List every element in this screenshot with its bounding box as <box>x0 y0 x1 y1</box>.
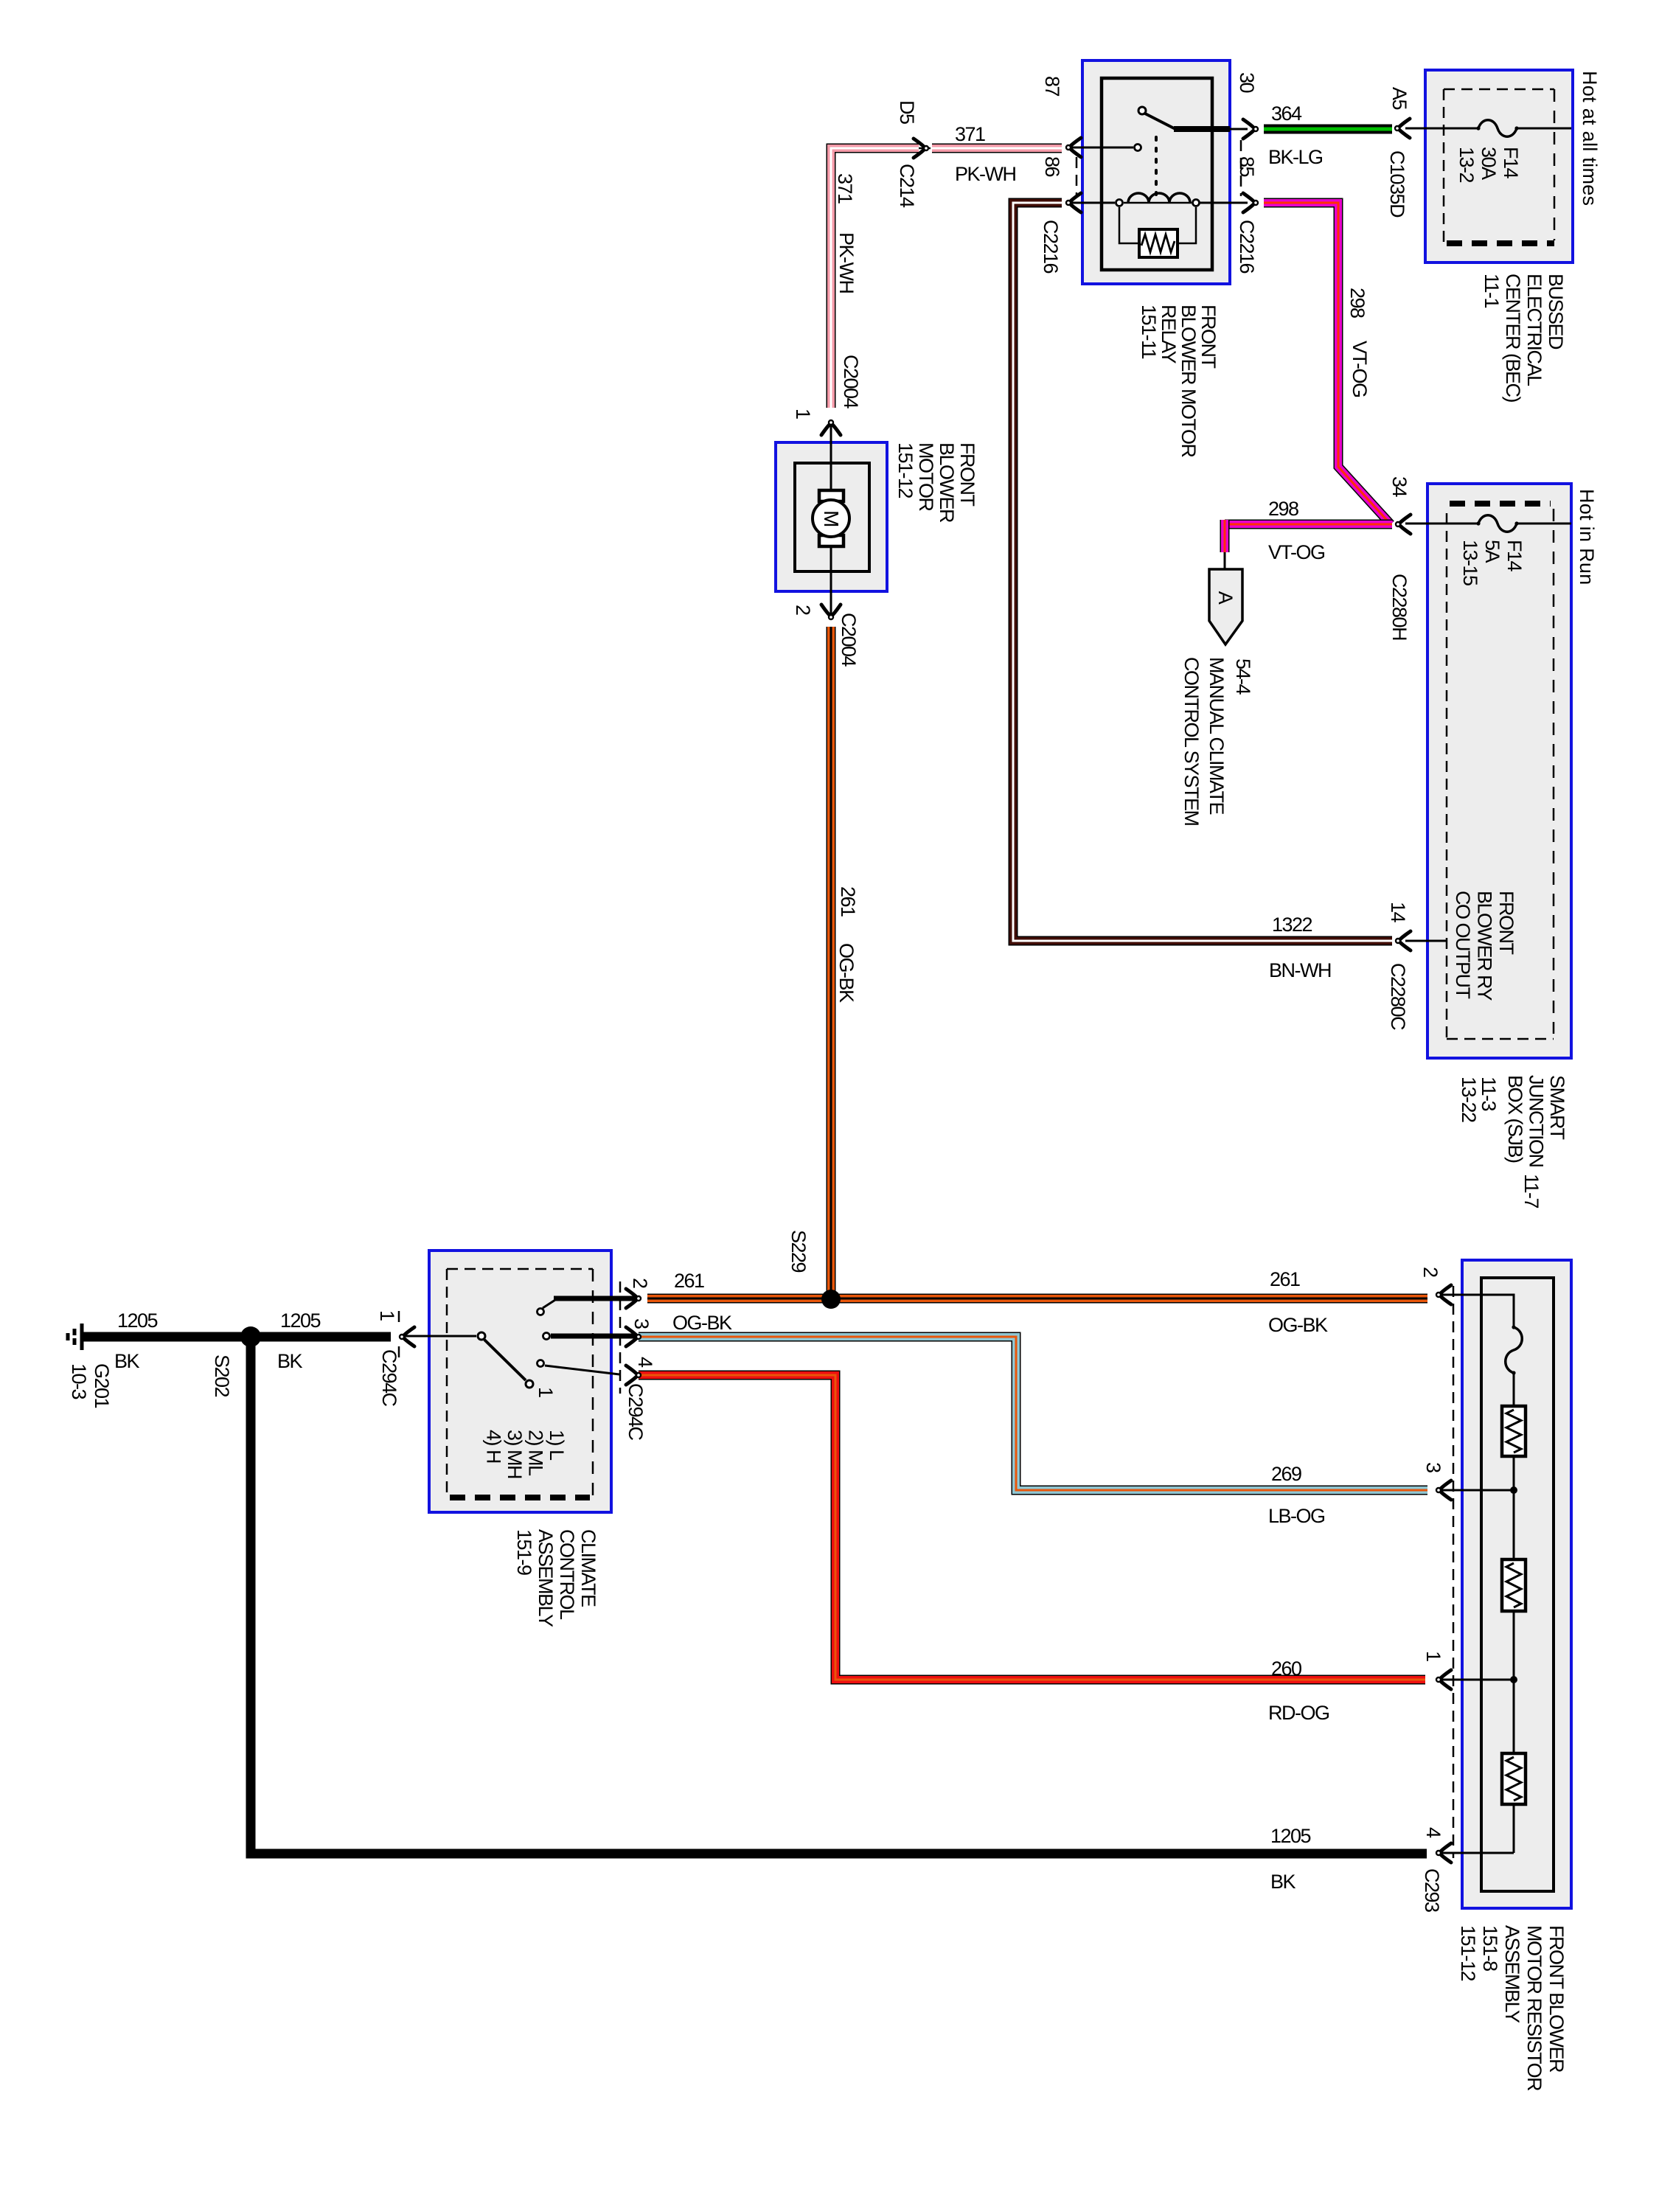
svg-text:CONTROL SYSTEM: CONTROL SYSTEM <box>1180 657 1203 826</box>
svg-text:A: A <box>1214 591 1237 605</box>
svg-text:OG-BK: OG-BK <box>672 1312 732 1334</box>
svg-text:FRONT: FRONT <box>956 442 978 506</box>
climate switch arm <box>484 1340 526 1380</box>
svg-text:JUNCTION: JUNCTION <box>1526 1075 1548 1167</box>
resistor element R1 <box>1502 1406 1526 1456</box>
svg-text:1: 1 <box>376 1310 398 1321</box>
svg-text:2: 2 <box>629 1278 651 1288</box>
wire 1322 BN-WH from relay pin 86 to SJB pin 14 <box>1013 203 1392 941</box>
motor pin 1 lead <box>830 425 832 491</box>
SJB connector arrow pin 34 C2280H <box>1396 515 1411 534</box>
svg-text:1: 1 <box>792 408 814 419</box>
SJB inner dashed outline <box>1450 501 1551 507</box>
svg-text:SMART: SMART <box>1546 1075 1568 1140</box>
svg-text:FRONT: FRONT <box>1197 305 1220 368</box>
motor connector arrow pin 2 C2004 <box>821 605 841 619</box>
relay switch pivot <box>1138 107 1146 114</box>
climate contact 4 (H) to pin 2 <box>538 1309 544 1315</box>
svg-text:54-4: 54-4 <box>1232 658 1254 695</box>
svg-text:30: 30 <box>1236 72 1258 93</box>
svg-text:BK: BK <box>1270 1871 1296 1893</box>
svg-text:F14: F14 <box>1503 540 1526 572</box>
climate connector arrows C294C <box>400 1327 414 1346</box>
svg-text:D5: D5 <box>896 100 918 124</box>
svg-text:151-8: 151-8 <box>1479 1925 1501 1971</box>
wire 260 RD-OG from climate control pin 4 to resistor pin 1 <box>639 1375 1425 1680</box>
svg-text:1205: 1205 <box>280 1310 321 1332</box>
svg-text:FRONT BLOWER: FRONT BLOWER <box>1545 1925 1568 2073</box>
svg-text:A5: A5 <box>1388 87 1411 110</box>
front blower motor box <box>776 442 887 591</box>
svg-text:LB-OG: LB-OG <box>1268 1505 1325 1527</box>
svg-text:2) ML: 2) ML <box>525 1430 547 1476</box>
front blower motor resistor assembly box <box>1462 1260 1571 1908</box>
relay connector dashed lines C2216 <box>1076 157 1078 196</box>
svg-text:2: 2 <box>792 605 814 615</box>
inline connector D5 C214 male pin lead <box>919 147 931 150</box>
climate connector dashed line left <box>398 1311 400 1329</box>
svg-text:298: 298 <box>1268 498 1298 520</box>
svg-text:2: 2 <box>1419 1267 1441 1277</box>
svg-text:3) MH: 3) MH <box>504 1430 526 1478</box>
svg-text:ASSEMBLY: ASSEMBLY <box>535 1529 557 1627</box>
resistor connector arrows <box>1436 1285 1451 1304</box>
BEC fuse F14 30A feed line <box>1405 128 1478 130</box>
relay connector arrows <box>1066 138 1081 157</box>
resistor thermal limiter <box>1506 1327 1523 1373</box>
relay switch arm <box>1145 114 1178 131</box>
svg-text:1322: 1322 <box>1272 914 1312 936</box>
svg-text:S229: S229 <box>787 1230 810 1273</box>
svg-text:13-22: 13-22 <box>1458 1077 1480 1122</box>
inline connector arrow D5 C214 <box>914 139 928 158</box>
svg-text:C2216: C2216 <box>1040 220 1062 274</box>
svg-text:BK: BK <box>277 1350 303 1372</box>
svg-text:1205: 1205 <box>1270 1825 1311 1847</box>
resistor pin 4 lead <box>1441 1852 1514 1854</box>
svg-text:CLIMATE: CLIMATE <box>577 1529 599 1607</box>
wire 1205 BK from S202 to climate control pin 1 <box>260 1332 391 1342</box>
svg-text:11-1: 11-1 <box>1481 274 1503 308</box>
svg-text:F14: F14 <box>1500 147 1522 179</box>
svg-text:ASSEMBLY: ASSEMBLY <box>1501 1925 1523 2023</box>
wire 261 OG-BK from motor pin 2 down to splice S229 <box>827 627 836 1299</box>
wire 269 LB-OG from climate control pin 3 to resistor pin 3 <box>639 1337 1427 1490</box>
wire 371 PK-WH left segment (corner down to motor) <box>831 148 919 408</box>
SJB connector arrow pin 14 C2280C <box>1396 931 1411 950</box>
svg-text:151-12: 151-12 <box>894 442 917 498</box>
svg-text:13-15: 13-15 <box>1459 540 1481 585</box>
svg-text:85: 85 <box>1236 156 1258 177</box>
resistor pin 2 lead <box>1441 1295 1514 1327</box>
resistor pin 3 lead <box>1441 1489 1514 1492</box>
relay pin 30 contact line <box>1174 126 1230 132</box>
motor connector arrow pin 1 C2004 <box>821 420 841 435</box>
svg-text:C2280H: C2280H <box>1388 574 1411 640</box>
wire 1205 BK ground segment from G201 to S202 <box>83 1332 242 1342</box>
svg-text:364: 364 <box>1271 102 1302 125</box>
svg-text:11-3: 11-3 <box>1478 1077 1500 1111</box>
svg-text:CONTROL: CONTROL <box>556 1529 578 1620</box>
wire 298 VT-OG branch to manual climate control <box>1225 520 1392 529</box>
svg-text:RELAY: RELAY <box>1158 305 1180 364</box>
svg-text:CO OUTPUT: CO OUTPUT <box>1452 891 1474 999</box>
svg-text:VT-OG: VT-OG <box>1268 541 1325 563</box>
resistor assembly connector dashed line C293 <box>1453 1286 1455 1858</box>
svg-text:BK: BK <box>114 1350 140 1372</box>
BEC connector arrow A5 <box>1395 119 1410 138</box>
lead from 298 stub to circuit reference A <box>1224 552 1226 570</box>
svg-text:3: 3 <box>1422 1462 1444 1472</box>
svg-text:10-3: 10-3 <box>68 1363 90 1399</box>
SJB fuse F14 5A feed line <box>1405 523 1478 525</box>
svg-text:1: 1 <box>535 1387 557 1397</box>
svg-text:1) L: 1) L <box>546 1430 568 1461</box>
svg-text:1205: 1205 <box>117 1310 158 1332</box>
svg-text:C2216: C2216 <box>1236 220 1258 274</box>
svg-text:OG-BK: OG-BK <box>1268 1314 1328 1336</box>
circuit reference A to manual climate control <box>1209 569 1242 644</box>
svg-text:371: 371 <box>834 173 856 204</box>
svg-text:5A: 5A <box>1481 540 1503 563</box>
climate switch pivot contact <box>403 1335 476 1338</box>
motor pin 2 lead <box>830 546 832 616</box>
climate control assembly box <box>429 1251 611 1512</box>
svg-text:C294C: C294C <box>378 1349 400 1407</box>
svg-text:BLOWER MOTOR: BLOWER MOTOR <box>1178 305 1200 458</box>
svg-text:14: 14 <box>1387 902 1409 923</box>
svg-text:C1035D: C1035D <box>1386 150 1408 218</box>
relay actuator dotted line <box>1155 137 1158 195</box>
svg-text:VT-OG: VT-OG <box>1349 341 1371 397</box>
svg-text:PK-WH: PK-WH <box>835 232 858 293</box>
svg-text:G201: G201 <box>91 1363 113 1408</box>
climate control inner dashed outline <box>447 1268 593 1270</box>
climate contact 2 (ML) to pin 4 <box>538 1360 544 1367</box>
smart junction box (SJB) <box>1427 484 1571 1058</box>
svg-text:86: 86 <box>1041 156 1063 177</box>
motor inner rectangle <box>795 463 869 571</box>
wire 298 VT-OG stub at A reference <box>1220 520 1230 552</box>
svg-text:C293: C293 <box>1421 1868 1443 1912</box>
wire 298 VT-OG from relay pin 85 to SJB pin 34 <box>1264 203 1391 524</box>
splice S202 <box>240 1326 261 1347</box>
relay coil <box>1116 200 1123 206</box>
wire 1205 BK from S202 to resistor pin 4 <box>251 1342 1427 1854</box>
svg-text:151-11: 151-11 <box>1138 305 1160 359</box>
svg-text:CENTER (BEC): CENTER (BEC) <box>1502 274 1524 403</box>
svg-text:151-12: 151-12 <box>1457 1925 1479 1981</box>
svg-text:S202: S202 <box>211 1354 233 1397</box>
wire 371 PK-WH right segment to relay pin 87 <box>932 144 1062 153</box>
svg-text:PK-WH: PK-WH <box>955 163 1016 185</box>
svg-text:4: 4 <box>634 1357 656 1368</box>
svg-text:MOTOR: MOTOR <box>915 442 937 511</box>
svg-text:BOX (SJB): BOX (SJB) <box>1504 1075 1526 1163</box>
climate contact 3 (MH) to pin 3 <box>543 1333 550 1340</box>
SJB pin 14 lead <box>1405 940 1447 942</box>
svg-text:Hot in Run: Hot in Run <box>1576 489 1598 585</box>
svg-text:298: 298 <box>1346 288 1368 318</box>
svg-text:BUSSED: BUSSED <box>1545 274 1567 349</box>
svg-text:13-2: 13-2 <box>1455 147 1478 183</box>
ground G201 symbol <box>68 1324 82 1350</box>
resistor assembly inner rectangle <box>1481 1278 1554 1891</box>
front blower motor relay box <box>1082 60 1230 284</box>
svg-text:MOTOR RESISTOR: MOTOR RESISTOR <box>1523 1925 1545 2091</box>
svg-text:ELECTRICAL: ELECTRICAL <box>1523 274 1545 386</box>
relay pin 87 lead <box>1071 147 1133 149</box>
svg-text:1: 1 <box>1422 1651 1444 1661</box>
svg-text:RD-OG: RD-OG <box>1268 1702 1329 1724</box>
svg-text:C2004: C2004 <box>838 613 860 667</box>
svg-text:269: 269 <box>1271 1463 1301 1485</box>
svg-text:Hot at all times: Hot at all times <box>1579 71 1601 206</box>
svg-text:BLOWER: BLOWER <box>936 442 958 523</box>
wire 261 OG-BK from climate control pin 2 to resistor pin 2 <box>647 1294 1427 1304</box>
bussed electrical center (BEC) box <box>1425 70 1573 262</box>
svg-text:FRONT: FRONT <box>1495 891 1517 954</box>
resistor pin 1 lead <box>1441 1679 1514 1681</box>
svg-text:4) H: 4) H <box>483 1430 505 1463</box>
svg-text:30A: 30A <box>1478 147 1500 180</box>
svg-text:M: M <box>820 510 843 526</box>
svg-text:261: 261 <box>674 1270 704 1292</box>
wire 364 BK-LG from BEC fuse to relay pin 30 <box>1264 125 1392 134</box>
resistor element R3 <box>1502 1753 1526 1804</box>
svg-text:261: 261 <box>837 886 859 917</box>
svg-text:BK-LG: BK-LG <box>1268 146 1323 168</box>
BEC inner dashed connector outline <box>1444 88 1554 91</box>
svg-text:151-9: 151-9 <box>513 1529 535 1575</box>
svg-text:34: 34 <box>1388 476 1411 498</box>
resistor element R2 <box>1502 1559 1526 1611</box>
svg-text:MANUAL CLIMATE: MANUAL CLIMATE <box>1206 657 1228 815</box>
svg-text:11-7: 11-7 <box>1520 1174 1543 1208</box>
svg-text:C2004: C2004 <box>840 355 862 409</box>
svg-text:OG-BK: OG-BK <box>835 943 858 1003</box>
svg-text:C294C: C294C <box>625 1383 647 1441</box>
svg-text:BLOWER RY: BLOWER RY <box>1474 891 1496 1001</box>
svg-text:4: 4 <box>1422 1827 1444 1838</box>
svg-text:87: 87 <box>1041 76 1063 97</box>
svg-text:371: 371 <box>955 123 985 145</box>
climate connector dashed line right <box>619 1281 622 1394</box>
svg-text:BN-WH: BN-WH <box>1269 959 1331 981</box>
relay inner case rectangle <box>1102 78 1212 270</box>
motor armature <box>819 490 844 501</box>
svg-text:261: 261 <box>1270 1268 1300 1290</box>
svg-text:260: 260 <box>1271 1658 1301 1680</box>
splice S229 <box>821 1290 841 1309</box>
svg-text:C214: C214 <box>896 164 918 208</box>
relay suppression resistor <box>1119 207 1138 243</box>
svg-text:3: 3 <box>630 1318 653 1329</box>
svg-text:C2280C: C2280C <box>1387 963 1409 1030</box>
